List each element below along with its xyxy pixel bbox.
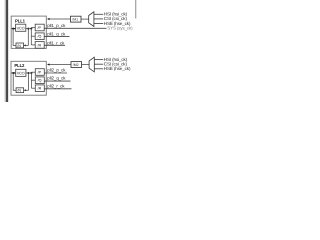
wire feedback2 left vertical (13, 73, 16, 90)
divider P2 box (35, 69, 44, 76)
wire pll1_p_ck output (long, to sys label) (44, 27, 106, 29)
junction dot A1 (12, 28, 14, 30)
wire mux2 input hse (94, 68, 103, 70)
svg-text:/P: /P (38, 26, 42, 30)
wire mux2 input hsi (94, 59, 103, 61)
wire stub to /P2 (31, 71, 35, 73)
svg-text:/P: /P (38, 70, 42, 74)
divider P1 box (35, 24, 44, 31)
wire pll1_q_ck output (44, 35, 69, 37)
wire pll1_r_ck output (44, 44, 65, 46)
divider M1 box (71, 16, 82, 22)
arrow into /N (24, 44, 26, 46)
junction dot A2 (feedback tap) (27, 28, 29, 30)
VCO U1 box (16, 24, 26, 31)
svg-text:VCO: VCO (17, 26, 25, 30)
mux2 (ref clock selector) (89, 57, 94, 72)
divider N2 box (16, 88, 24, 93)
svg-text:pll2_r_ck: pll2_r_ck (47, 84, 65, 89)
arrow into VCO2 (14, 72, 16, 74)
svg-text:PLL2: PLL2 (14, 63, 25, 68)
junction dot B3 (divider rail tap) (30, 72, 32, 74)
junction dot B2 (feedback tap) (27, 72, 29, 74)
wire mux1 to M1 (81, 18, 89, 20)
svg-text:/N: /N (17, 44, 21, 48)
wire mux2 input csi (94, 63, 103, 65)
wire stub to /Q2 (31, 79, 35, 81)
wire feedback2 right (VCO out tap down to /N) (26, 73, 28, 90)
PLL2 outer box (11, 61, 46, 95)
wire stub to /R2 (31, 87, 35, 89)
wire divider rail vertical (30, 28, 32, 45)
wire feedback left vertical (13, 29, 16, 46)
wire stub to /R (31, 44, 35, 46)
wire pll2_q_ck output (44, 80, 70, 82)
svg-text:/N: /N (17, 89, 21, 93)
wire mux1 input hsi (94, 13, 103, 15)
svg-text:VCO: VCO (17, 72, 25, 76)
arrow into PLL1 (47, 18, 50, 20)
svg-text:pll2_q_ck: pll2_q_ck (47, 76, 66, 81)
wire mux1 input hse (94, 23, 103, 25)
svg-text:/M2: /M2 (73, 63, 79, 67)
svg-text:pll1_q_ck: pll1_q_ck (47, 32, 66, 37)
svg-text:/Q: /Q (38, 35, 42, 39)
wire ref2 input with arrow into PLL2 (49, 64, 71, 66)
junction dot A3 (divider rail tap) (30, 28, 32, 30)
cropped wire at top right (135, 0, 137, 19)
svg-text:PLL1: PLL1 (15, 19, 26, 24)
svg-text:/M1: /M1 (72, 18, 78, 22)
wire ref1 input with arrow into PLL1 (49, 18, 70, 20)
mux1 (ref clock selector) (89, 12, 94, 27)
arrow into PLL2 (47, 63, 50, 65)
arrow into /N2 (24, 89, 26, 91)
junction dot B1 (12, 72, 14, 74)
wire VCO2 output (26, 72, 32, 74)
divider R1 box (35, 42, 44, 49)
wire divider rail2 vertical (30, 72, 32, 88)
divider R2 box (35, 85, 44, 92)
wire VCO2 input (11, 72, 16, 74)
wire VCO input (11, 28, 15, 30)
wire stub to /P (31, 27, 35, 29)
wire stub to /Q (31, 35, 35, 37)
svg-text:HSE (hse_ck): HSE (hse_ck) (104, 21, 131, 26)
divider Q2 box (35, 77, 44, 84)
left border bus line (dark) (6, 0, 8, 102)
wire mux1 input csi (94, 18, 103, 20)
wire pll2_p_ck output (44, 72, 67, 74)
svg-text:pll1_p_ck: pll1_p_ck (47, 23, 66, 28)
svg-text:pll1_r_ck: pll1_r_ck (47, 40, 65, 45)
VCO U2 box (16, 69, 26, 76)
svg-text:/R: /R (38, 87, 42, 91)
svg-text:pll2_p_ck: pll2_p_ck (47, 67, 66, 72)
divider N1 box (16, 43, 24, 48)
left border bus line (light) (4, 0, 6, 102)
wire pll2_r_ck output (44, 88, 71, 90)
wire mux2 to M2 (82, 64, 90, 66)
arrow into VCO (14, 28, 16, 30)
divider Q1 box (35, 33, 44, 40)
divider M2 box (71, 62, 82, 68)
svg-text:/R: /R (38, 43, 42, 47)
svg-text:/Q: /Q (38, 79, 42, 83)
svg-text:HSE (hse_ck): HSE (hse_ck) (104, 66, 131, 71)
PLL1 outer box (11, 16, 46, 48)
wire VCO output (26, 28, 32, 30)
svg-text:SYS (sys_ck): SYS (sys_ck) (107, 25, 133, 30)
wire feedback right (VCO out tap down to /N) (26, 29, 28, 46)
